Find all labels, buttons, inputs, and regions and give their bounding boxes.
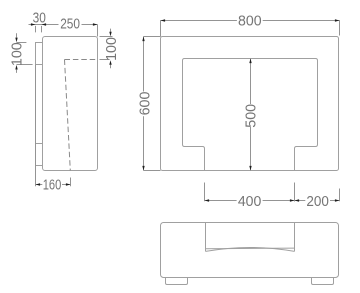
svg-text:30: 30 [33, 10, 46, 26]
svg-text:200: 200 [306, 194, 329, 210]
svg-text:100: 100 [104, 37, 120, 61]
svg-text:250: 250 [60, 17, 80, 33]
svg-text:160: 160 [43, 177, 62, 193]
svg-text:100: 100 [10, 42, 26, 66]
svg-text:500: 500 [244, 104, 260, 128]
svg-text:400: 400 [238, 194, 262, 210]
svg-text:600: 600 [138, 92, 154, 116]
svg-text:800: 800 [238, 14, 262, 30]
